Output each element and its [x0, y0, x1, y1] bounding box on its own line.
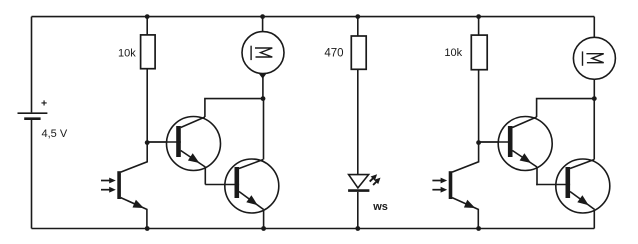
- svg-text:4,5 V: 4,5 V: [42, 128, 68, 140]
- svg-text:10k: 10k: [118, 47, 136, 59]
- svg-text:ws: ws: [372, 201, 388, 213]
- svg-text:+: +: [41, 98, 47, 110]
- svg-text:470: 470: [324, 48, 343, 60]
- svg-text:10k: 10k: [444, 47, 462, 59]
